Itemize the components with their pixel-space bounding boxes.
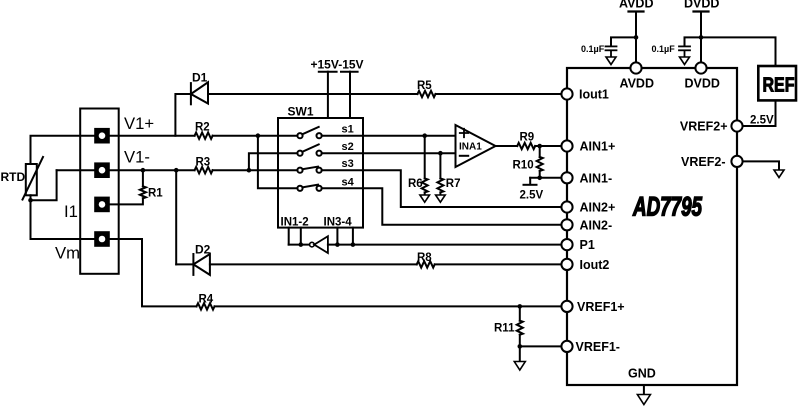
pin AIN1-: [561, 172, 572, 183]
svg-text:INA1: INA1: [459, 142, 482, 153]
svg-text:P1: P1: [580, 238, 595, 252]
wire Iout2 net (D2 to R8): [210, 263, 417, 265]
resistor R3: [195, 167, 213, 173]
svg-text:RTD: RTD: [1, 170, 26, 184]
pin AIN2+: [561, 201, 572, 212]
svg-text:AIN1+: AIN1+: [580, 140, 616, 154]
svg-text:0.1µF: 0.1µF: [581, 44, 605, 54]
wire s4 bypass: [258, 136, 298, 189]
svg-text:2.5V: 2.5V: [520, 190, 544, 202]
svg-text:IN3-4: IN3-4: [324, 217, 353, 229]
node R10 bottom junction: [537, 176, 542, 181]
pin VREF1+: [561, 301, 572, 312]
wire GND stub: [643, 385, 645, 395]
resistor R2: [195, 133, 213, 139]
diode D1: [191, 82, 208, 104]
svg-text:AIN1-: AIN1-: [580, 171, 613, 185]
svg-text:VREF1-: VREF1-: [576, 340, 620, 354]
resistor R8: [417, 261, 435, 267]
svg-text:AD7795: AD7795: [632, 192, 702, 222]
svg-text:GND: GND: [628, 367, 656, 381]
pin AIN1+: [561, 140, 572, 151]
wire V1+ net to s1: [213, 135, 298, 137]
wire INA1 output: [496, 145, 518, 147]
diode D2: [193, 254, 210, 275]
op-amp INA1: [456, 125, 496, 167]
svg-text:+15V-15V: +15V-15V: [311, 58, 364, 72]
resistor R11: [517, 306, 523, 346]
resistor R10: [537, 146, 543, 178]
wire Vm to R4: [110, 239, 197, 306]
rail 2.5V at AIN1-: [524, 178, 537, 185]
wire AVDD cap branch: [611, 37, 636, 45]
resistor R6: [422, 136, 428, 195]
wire V1- net to s3: [213, 169, 298, 171]
wire s4 to AIN2-: [322, 188, 562, 225]
svg-text:REF: REF: [763, 74, 795, 96]
node D2 drop junction: [174, 168, 179, 173]
wire P1 net (left of inverter): [289, 244, 310, 246]
svg-text:Iout1: Iout1: [579, 88, 609, 102]
capacitor C1 0.1uF: [606, 46, 617, 56]
wire s1 to INA1 +: [322, 135, 456, 137]
wire s2 step: [249, 153, 298, 170]
switch s4: [297, 185, 321, 191]
node s2 step junction: [247, 168, 252, 173]
ground below R11: [514, 362, 525, 371]
wire REF to VREF2+: [743, 101, 776, 127]
wire Iout1 net (D1 to V1+ tap): [175, 94, 191, 136]
wire V1- net (left step to R3): [57, 169, 195, 171]
svg-text:R8: R8: [417, 252, 432, 264]
node AVDD cap junction: [634, 35, 639, 40]
svg-text:SW1: SW1: [288, 105, 314, 119]
switch s1: [297, 127, 321, 138]
node R11 top junction: [518, 304, 523, 309]
wire V1+ net (RTD top to R2): [31, 136, 195, 164]
node DVDD cap junction: [699, 35, 704, 40]
pin Iout1: [561, 88, 572, 99]
resistor R9: [517, 143, 535, 149]
node R9/R10 junction: [537, 144, 542, 149]
ground below GND: [637, 395, 650, 405]
svg-text:AVDD: AVDD: [619, 0, 654, 11]
resistor R7: [437, 153, 443, 195]
svg-text:VREF2-: VREF2-: [681, 155, 725, 169]
svg-text:V1+: V1+: [124, 114, 154, 133]
svg-text:R5: R5: [417, 80, 432, 92]
node R11 bottom junction: [518, 344, 523, 349]
resistor R4: [197, 303, 215, 309]
svg-text:DVDD: DVDD: [684, 0, 719, 11]
rail DVDD top: [694, 12, 709, 63]
wire DVDD to REF: [701, 37, 776, 65]
svg-text:AIN2-: AIN2-: [580, 218, 613, 232]
connector block J1: [80, 109, 119, 274]
pin Iout2: [561, 259, 572, 270]
pin AVDD: [630, 62, 641, 73]
wire DVDD cap branch: [685, 37, 702, 45]
ground below C2: [680, 57, 690, 65]
pin AIN2-: [561, 219, 572, 230]
svg-text:2.5V: 2.5V: [750, 115, 774, 127]
svg-text:I1: I1: [64, 202, 78, 221]
pad V1-: [94, 162, 110, 178]
resistor R1: [110, 170, 146, 204]
svg-text:V1-: V1-: [124, 148, 150, 167]
svg-text:R10: R10: [513, 160, 534, 172]
wire V1- step to RTD bottom: [31, 170, 57, 200]
svg-text:Iout2: Iout2: [580, 258, 610, 272]
wire D2 drop: [175, 170, 177, 264]
svg-text:R6: R6: [408, 178, 423, 190]
pin DVDD: [695, 62, 706, 73]
ground at VREF2-: [774, 170, 784, 178]
svg-text:R9: R9: [520, 132, 535, 144]
wire RTD bottom to Vm: [31, 195, 95, 239]
ground below R7: [436, 195, 446, 202]
svg-text:R11: R11: [494, 323, 515, 335]
switch box SW1: [278, 118, 363, 228]
svg-text:DVDD: DVDD: [685, 77, 720, 91]
inverter stubs IN1-2 / IN3-4: [289, 228, 353, 245]
wire VREF2- to ground: [743, 161, 779, 169]
wire R11 to ground: [519, 346, 521, 361]
wire Iout2 net (drop to D2): [176, 263, 193, 265]
svg-text:R3: R3: [196, 157, 211, 169]
svg-text:0.1µF: 0.1µF: [652, 44, 676, 54]
wire Iout1 net (D1 to R5): [208, 93, 418, 95]
node V1+ / s4 bypass junction: [256, 133, 261, 138]
wire R9 to AIN1+: [535, 145, 561, 147]
pad I1: [94, 197, 110, 213]
node R6 junction: [422, 133, 427, 138]
svg-text:Vm: Vm: [55, 244, 80, 263]
ground below C1: [606, 57, 616, 65]
REF box: [758, 66, 796, 100]
pin VREF2-: [731, 156, 742, 167]
RTD thermistor: [23, 157, 44, 200]
node R1 top junction: [141, 168, 146, 173]
node stub junctions on P1 net: [299, 242, 356, 247]
svg-text:R2: R2: [195, 122, 210, 134]
pin VREF2+: [731, 120, 742, 131]
pin P1: [561, 239, 572, 250]
wire R4 to VREF1+ pin: [215, 305, 562, 307]
rail AVDD top: [629, 12, 644, 63]
svg-text:AVDD: AVDD: [620, 77, 655, 91]
svg-text:s4: s4: [342, 176, 355, 188]
node R7 junction: [438, 151, 443, 156]
ground below R6: [420, 195, 430, 202]
pad V1+: [94, 128, 110, 144]
wire s2 to INA1 -: [322, 152, 456, 154]
svg-text:s2: s2: [342, 141, 354, 153]
svg-text:s1: s1: [342, 124, 354, 136]
pad Vm: [94, 231, 110, 247]
capacitor C2 0.1uF: [679, 46, 690, 56]
switch s3: [297, 167, 321, 173]
resistor R5: [418, 91, 436, 97]
IC AD7795 body: [567, 68, 737, 385]
wire R8 to Iout2 pin: [435, 263, 562, 265]
svg-text:IN1-2: IN1-2: [281, 217, 309, 229]
wire P1 net to pin: [328, 244, 561, 246]
svg-text:D2: D2: [195, 243, 211, 257]
svg-text:AIN2+: AIN2+: [580, 201, 616, 215]
node RTD bottom junction: [28, 198, 33, 203]
svg-text:s3: s3: [342, 158, 354, 170]
svg-text:R7: R7: [446, 178, 461, 190]
wire s3 to AIN2+: [322, 170, 562, 207]
wire AIN1- net: [530, 177, 561, 179]
svg-text:VREF2+: VREF2+: [680, 120, 728, 134]
svg-text:R4: R4: [199, 294, 214, 306]
svg-text:D1: D1: [192, 71, 208, 85]
wire Iout1 net (R5 to pin): [436, 93, 562, 95]
rail +15V: [319, 72, 337, 118]
rail -15V: [341, 72, 358, 118]
inverter U2: [310, 236, 328, 253]
wire VREF1- net: [520, 345, 562, 347]
switch s2: [297, 144, 321, 155]
pin VREF1-: [561, 341, 572, 352]
svg-text:R1: R1: [148, 188, 163, 200]
svg-text:VREF1+: VREF1+: [577, 300, 625, 314]
